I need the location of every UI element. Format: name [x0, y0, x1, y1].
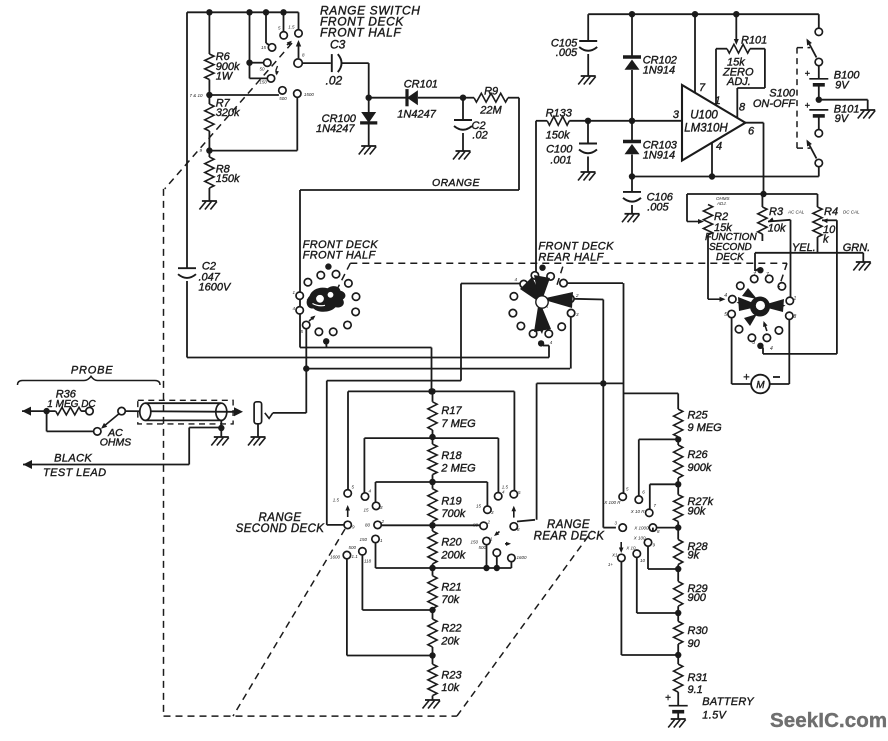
svg-text:.02: .02 [472, 130, 487, 142]
svg-text:150: 150 [359, 537, 367, 542]
svg-text:500: 500 [348, 545, 356, 550]
svg-text:1: 1 [794, 296, 797, 302]
svg-text:1.5V: 1.5V [702, 710, 727, 722]
svg-text:1N4247: 1N4247 [316, 123, 355, 135]
svg-text:R133: R133 [546, 107, 573, 119]
svg-text:10k: 10k [768, 223, 786, 235]
svg-text:ADJ.: ADJ. [716, 201, 727, 206]
svg-text:1600V: 1600V [199, 282, 232, 294]
svg-text:7: 7 [766, 272, 769, 278]
svg-text:4: 4 [716, 141, 722, 153]
svg-text:1.5: 1.5 [288, 25, 295, 30]
svg-text:X 100 R: X 100 R [603, 500, 621, 505]
svg-text:1N914: 1N914 [643, 150, 675, 162]
svg-text:.005: .005 [556, 47, 578, 59]
svg-text:4: 4 [502, 490, 505, 495]
svg-text:9: 9 [199, 148, 202, 153]
svg-text:9V: 9V [835, 113, 850, 125]
svg-text:R9: R9 [484, 85, 498, 97]
svg-text:900k: 900k [688, 462, 712, 474]
svg-text:R23: R23 [441, 670, 462, 682]
svg-text:2 MEG: 2 MEG [440, 463, 476, 475]
svg-text:+: + [743, 372, 749, 384]
svg-text:150k: 150k [546, 130, 570, 142]
svg-text:4: 4 [770, 346, 773, 352]
svg-text:AC CAL: AC CAL [787, 210, 805, 215]
svg-text:R31: R31 [688, 672, 708, 684]
svg-text:10k: 10k [441, 682, 459, 694]
svg-text:10: 10 [640, 558, 646, 563]
svg-text:4: 4 [550, 340, 553, 345]
svg-text:9V: 9V [835, 80, 850, 92]
svg-text:7: 7 [654, 503, 657, 508]
svg-text:ADJ.: ADJ. [726, 76, 751, 88]
svg-text:RANGE: RANGE [547, 519, 590, 531]
svg-text:4: 4 [369, 489, 372, 494]
svg-text:R2: R2 [714, 211, 728, 223]
svg-text:5: 5 [724, 312, 727, 318]
svg-text:5: 5 [518, 490, 521, 495]
svg-text:R20: R20 [441, 537, 462, 549]
svg-text:3: 3 [614, 521, 617, 526]
svg-text:1500: 1500 [304, 92, 315, 97]
svg-text:X 1000: X 1000 [633, 526, 649, 531]
svg-text:DECK: DECK [716, 252, 745, 263]
svg-text:150: 150 [470, 540, 478, 545]
svg-text:6: 6 [748, 126, 755, 138]
svg-text:R22: R22 [441, 623, 461, 635]
svg-text:.005: .005 [647, 202, 669, 214]
svg-text:DC CAL: DC CAL [843, 210, 860, 215]
svg-text:80: 80 [365, 523, 371, 528]
svg-text:90: 90 [688, 638, 701, 650]
svg-text:M: M [756, 380, 765, 391]
svg-text:3: 3 [673, 109, 680, 121]
svg-text:70k: 70k [441, 594, 459, 606]
svg-text:.001: .001 [550, 155, 571, 167]
svg-text:R30: R30 [688, 625, 709, 637]
svg-text:50: 50 [259, 67, 265, 72]
svg-text:3: 3 [752, 340, 755, 346]
svg-text:9k: 9k [688, 550, 700, 562]
svg-text:1.5: 1.5 [333, 498, 340, 503]
svg-text:5: 5 [626, 487, 629, 492]
svg-text:SECOND DECK: SECOND DECK [236, 523, 326, 535]
svg-text:X 10 R: X 10 R [630, 509, 646, 514]
svg-text:9: 9 [352, 525, 355, 530]
svg-text:1600: 1600 [517, 555, 528, 560]
svg-text:3: 3 [380, 505, 383, 510]
svg-text:90k: 90k [688, 506, 706, 518]
svg-text:8: 8 [302, 53, 305, 58]
svg-text:7: 7 [753, 272, 756, 278]
svg-text:7 & 10: 7 & 10 [190, 93, 204, 98]
svg-text:X 100: X 100 [633, 536, 646, 541]
svg-text:7: 7 [699, 82, 706, 94]
svg-text:CR101: CR101 [404, 79, 438, 91]
svg-text:1.1: 1.1 [352, 554, 359, 559]
svg-text:2: 2 [381, 519, 385, 524]
svg-text:900: 900 [688, 592, 707, 604]
svg-text:1 MEG DC: 1 MEG DC [47, 399, 96, 410]
svg-text:R17: R17 [441, 405, 462, 417]
svg-text:BLACK: BLACK [54, 453, 92, 465]
svg-text:5: 5 [278, 26, 281, 31]
svg-text:1N4247: 1N4247 [397, 109, 436, 121]
svg-text:+: + [805, 101, 810, 111]
svg-text:X 10: X 10 [625, 546, 636, 551]
svg-text:700k: 700k [441, 508, 465, 520]
svg-text:.02: .02 [326, 74, 343, 88]
svg-text:BATTERY: BATTERY [702, 696, 754, 708]
svg-text:1: 1 [292, 290, 295, 295]
svg-text:R21: R21 [441, 582, 461, 594]
svg-text:9: 9 [653, 543, 656, 548]
svg-text:8: 8 [739, 102, 746, 114]
svg-text:22M: 22M [479, 105, 502, 117]
svg-text:9.1: 9.1 [688, 684, 703, 696]
svg-text:80: 80 [473, 523, 479, 528]
svg-text:LM310H: LM310H [684, 123, 728, 135]
svg-text:REAR HALF: REAR HALF [538, 252, 604, 264]
svg-text:R26: R26 [688, 449, 709, 461]
svg-text:1N914: 1N914 [643, 65, 675, 77]
svg-text:2: 2 [575, 293, 579, 298]
svg-text:REAR DECK: REAR DECK [534, 531, 606, 543]
svg-text:7 MEG: 7 MEG [441, 418, 476, 430]
svg-text:8: 8 [517, 527, 520, 532]
svg-text:6: 6 [642, 490, 645, 495]
svg-text:1W: 1W [216, 71, 234, 83]
svg-text:R19: R19 [441, 496, 461, 508]
svg-text:1+: 1+ [608, 562, 614, 567]
svg-text:1600: 1600 [330, 555, 341, 560]
svg-text:4: 4 [724, 293, 727, 299]
svg-text:15: 15 [261, 45, 267, 50]
svg-text:X1: X1 [611, 553, 618, 558]
svg-text:500: 500 [478, 545, 486, 550]
svg-text:GRN.: GRN. [843, 242, 871, 254]
svg-text:9 MEG: 9 MEG [688, 422, 723, 434]
svg-text:1: 1 [380, 538, 383, 543]
svg-text:SeekIC.com: SeekIC.com [770, 709, 887, 732]
svg-text:8: 8 [657, 529, 660, 534]
svg-text:200k: 200k [440, 550, 465, 562]
svg-text:R18: R18 [441, 450, 462, 462]
svg-text:C3: C3 [330, 38, 346, 52]
svg-text:4: 4 [292, 306, 295, 311]
svg-text:3: 3 [576, 312, 579, 317]
svg-text:ORANGE: ORANGE [432, 177, 481, 189]
svg-text:15: 15 [476, 504, 482, 509]
svg-text:150k: 150k [216, 173, 240, 185]
svg-text:OHMS: OHMS [100, 437, 132, 449]
svg-text:20k: 20k [440, 636, 459, 648]
svg-text:R101: R101 [741, 35, 767, 47]
svg-text:R4: R4 [824, 206, 838, 218]
svg-text:k: k [823, 234, 829, 246]
svg-text:8: 8 [794, 314, 797, 320]
svg-text:FRONT HALF: FRONT HALF [303, 250, 377, 262]
svg-text:TEST LEAD: TEST LEAD [43, 467, 107, 479]
svg-text:PROBE: PROBE [71, 365, 114, 377]
svg-text:+: + [665, 693, 671, 704]
svg-text:U100: U100 [690, 110, 718, 122]
svg-text:4: 4 [514, 277, 517, 282]
svg-text:150: 150 [259, 80, 267, 85]
svg-text:2: 2 [487, 520, 491, 525]
svg-text:ON-OFF: ON-OFF [753, 98, 796, 110]
svg-text:R25: R25 [688, 410, 709, 422]
svg-text:118: 118 [364, 559, 372, 564]
svg-text:5: 5 [300, 329, 303, 334]
svg-text:5: 5 [352, 485, 355, 490]
svg-text:1: 1 [490, 537, 493, 542]
svg-text:+: + [805, 69, 810, 79]
svg-text:3: 3 [491, 510, 494, 515]
svg-text:500: 500 [279, 96, 287, 101]
svg-text:15: 15 [363, 508, 369, 513]
svg-text:R3: R3 [769, 206, 784, 218]
